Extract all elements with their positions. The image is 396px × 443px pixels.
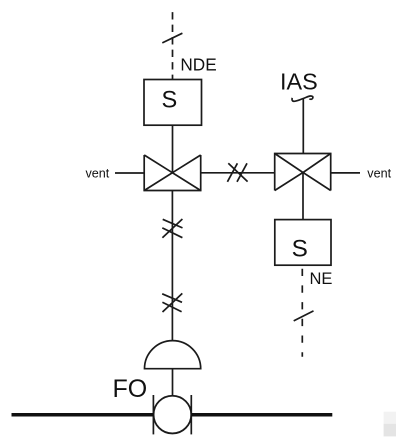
- process pipe (left segment): [12, 413, 154, 417]
- slash on NE signal line: [294, 311, 314, 321]
- scrollbar corner block (lower, darker gray): [384, 424, 396, 437]
- double slash mark 2 on vertical pneumatic line: [162, 293, 182, 312]
- process pipe (right segment): [191, 413, 332, 417]
- label IAS: [280, 68, 318, 94]
- svg-text:S: S: [162, 87, 178, 113]
- svg-text:vent: vent: [86, 167, 110, 181]
- label NDE: [180, 54, 216, 74]
- wire: S1 box to valve V1 center: [172, 125, 174, 173]
- slash on NDE signal line: [162, 33, 182, 43]
- IAS supply squiggle: [292, 96, 313, 101]
- svg-text:IAS: IAS: [280, 68, 318, 94]
- signal line NE (dashed vertical, below S2): [301, 269, 303, 357]
- double slash mark on V1-V2 line: [227, 163, 247, 182]
- control valve body (circle): [154, 396, 192, 434]
- label NE: [310, 270, 333, 288]
- diaphragm actuator dome: [145, 341, 201, 369]
- svg-text:NE: NE: [310, 270, 333, 288]
- wire: IAS supply down to valve V2: [302, 99, 304, 154]
- solenoid actuator S2 box: [275, 220, 331, 266]
- valve flange tick (right): [190, 395, 192, 434]
- label vent (right): [367, 166, 391, 180]
- letter S of solenoid S2: [292, 236, 308, 263]
- svg-text:vent: vent: [367, 166, 391, 180]
- svg-text:NDE: NDE: [180, 54, 216, 74]
- wire: V1 bottom down to actuator dome: [171, 191, 173, 341]
- scrollbar corner block (upper, light gray): [384, 412, 396, 424]
- wire: pneumatic line V1 to V2: [201, 172, 275, 174]
- 3-way valve V1 (left, bottom triangle closed): [144, 155, 201, 191]
- wire: V2 center down to solenoid S2: [302, 173, 304, 220]
- double slash mark 1 on vertical pneumatic line: [162, 219, 182, 238]
- svg-text:FO: FO: [113, 375, 148, 403]
- 3-way valve V2 (right, top triangle closed): [275, 154, 331, 191]
- actuator stem to valve body: [172, 369, 174, 396]
- label vent (left): [86, 167, 110, 181]
- wire: V2 to right vent: [331, 172, 360, 174]
- letter S of solenoid S1: [162, 87, 178, 113]
- solenoid actuator S1 box: [144, 80, 202, 126]
- svg-text:S: S: [292, 236, 308, 263]
- label FO: [113, 375, 148, 403]
- signal line NDE (dashed vertical, top): [172, 12, 174, 79]
- valve flange tick (left): [152, 395, 154, 434]
- wire: left vent line to V1: [115, 172, 144, 174]
